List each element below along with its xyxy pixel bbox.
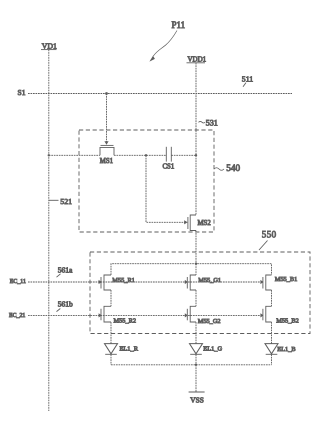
node junction top rail / VDD1 [195,263,197,265]
svg-text:550: 550 [262,230,277,240]
wire branch to gate of MS2 [146,155,185,222]
wire MS1 drain to CS1 [114,154,166,156]
transistor MS2 [184,215,211,231]
capacitor CS1 [163,147,175,171]
svg-text:CS1: CS1 [163,164,175,171]
svg-text:521: 521 [60,197,72,206]
transistor M55_G1 [185,275,221,290]
svg-text:M55_G2: M55_G2 [198,318,221,325]
node junction rail/VSS [195,364,197,366]
svg-text:M55_B2: M55_B2 [276,317,299,324]
wire R LED cathode down [110,354,112,365]
svg-text:M55_R1: M55_R1 [112,277,135,284]
wire emission control line EC_21 (561b) [28,314,263,316]
dashed box 550 [90,252,310,334]
svg-text:EC_21: EC_21 [9,313,25,319]
label P11 [149,20,185,62]
svg-text:561a: 561a [58,266,73,275]
wire G column to LED [195,322,197,344]
svg-text:EL1_G: EL1_G [203,345,222,352]
node junction MS1 drain / MS2 gate branch [145,154,147,156]
ground symbol VSS [189,392,205,405]
svg-text:MS2: MS2 [198,220,212,227]
wire R column to LED [110,322,112,344]
ref label 531 [199,119,218,128]
wire G column between rows [195,290,197,306]
ref label 511 [242,74,254,86]
wire top rail [111,264,272,275]
svg-text:M55_R2: M55_R2 [114,317,137,324]
power label VD1 [41,41,57,50]
svg-text:EC_11: EC_11 [10,279,26,285]
ref label 550 [259,230,277,250]
transistor M55_R2 [99,306,136,324]
wire bottom cathode rail [111,364,272,366]
svg-text:540: 540 [226,163,240,173]
LED EL1_B [265,344,296,355]
power label VDD1 [187,56,207,64]
wire VD1 to MS1 source [49,154,100,156]
label 561b [57,300,74,312]
wire gate of MS1 from S1 [106,94,108,143]
wire VDD1 line MS2 to rail junction [195,231,197,264]
LED EL1_G [190,344,223,355]
wire CS1 to VDD1 line [171,154,196,156]
ref label 540 [214,163,240,173]
wire R column between rows [110,290,112,306]
wire scan line S1 (511) horizontal [28,93,292,95]
wire to VSS [195,365,197,392]
transistor M55_R1 [99,275,135,290]
node junction VD1/source MS1 [48,154,50,156]
svg-text:561b: 561b [58,300,73,309]
dashed box 540 [79,130,214,232]
svg-text:M55_G1: M55_G1 [198,277,221,284]
svg-text:EL1_B: EL1_B [277,346,295,353]
svg-text:M55_B1: M55_B1 [275,276,298,283]
wire B column between rows [271,290,273,306]
wire G column rail to M55_G1 [195,264,197,275]
node junction S1/gate MS1 [105,92,108,95]
svg-text:531: 531 [206,119,218,128]
wire B LED cathode down [271,354,273,365]
svg-text:P11: P11 [172,20,186,30]
label 561a [57,266,74,278]
wire power line VDD1 (531) vertical upper [195,63,197,215]
transistor M55_G2 [185,306,221,325]
ref label 521 [49,197,72,206]
svg-text:EL1_R: EL1_R [120,345,139,352]
svg-text:VD1: VD1 [42,41,57,50]
svg-text:MS1: MS1 [100,158,113,165]
wire data line VD1 (521) vertical [48,50,50,411]
wire G LED cathode down [195,354,197,365]
transistor M55_B2 [260,306,298,324]
transistor MS1 [100,141,114,165]
svg-text:VSS: VSS [190,396,204,405]
transistor M55_B1 [260,275,297,290]
svg-text:S1: S1 [18,88,26,97]
svg-text:511: 511 [242,74,254,83]
wire B column to LED [271,322,273,344]
wire emission control line EC_11 (561a) [28,281,263,283]
LED EL1_R [105,344,139,355]
node junction CS1/VDD1 [195,154,197,156]
